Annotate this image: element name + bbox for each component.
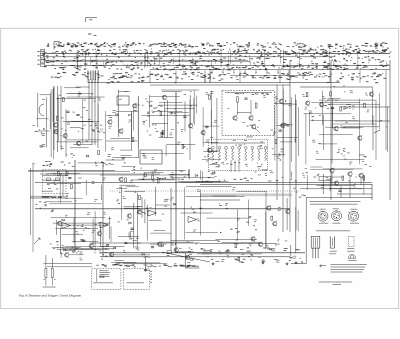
main bus 5 xyxy=(100,252,305,254)
module label mid xyxy=(228,107,230,110)
wire zb2 h1 xyxy=(69,254,84,256)
wire zbl2 v2 xyxy=(59,228,61,255)
wire zbl1 h2 xyxy=(47,183,81,185)
note arrow xyxy=(320,265,327,267)
label zbm1 t3 xyxy=(152,172,154,175)
wire zl2a h0 xyxy=(106,140,138,142)
module resistor Rb xyxy=(255,103,257,108)
wire zl2c h0 xyxy=(141,153,184,155)
wire h b7 xyxy=(200,243,277,245)
transistor zbm4 q8 xyxy=(258,242,262,247)
transistor zbm4 q6 xyxy=(267,205,271,210)
transistor zr1 q8 xyxy=(369,91,373,96)
label zbm3 t1 xyxy=(170,198,174,201)
label zbl2 t1 xyxy=(78,250,80,253)
wire zc1 h2 xyxy=(208,150,220,152)
wire zbm2 v0 xyxy=(137,193,139,247)
wire zc1 v0 xyxy=(210,91,212,126)
label zbot t9 xyxy=(293,256,297,259)
wire zl2b v4 xyxy=(193,98,195,123)
resistor zr1 r0 xyxy=(306,93,308,97)
wire zl2c h1 xyxy=(167,144,195,146)
wire zbr h2 xyxy=(331,176,343,178)
label zl2a t0 xyxy=(111,163,114,166)
transistor zl2a q7 xyxy=(119,128,123,133)
wire zbm2 h4 xyxy=(116,187,127,189)
diode zbot d4 xyxy=(142,253,144,255)
resistor zbm2 r4 xyxy=(129,233,131,237)
wire zr1 h9 xyxy=(341,127,360,129)
transistor zl2b q4 xyxy=(162,95,166,100)
connector SKT A bracket xyxy=(39,104,44,116)
capacitor zbl1 c0 xyxy=(68,178,71,179)
switch chart contact marks C xyxy=(62,65,383,71)
capacitor zc2 c3 xyxy=(279,130,282,131)
wire h row bottom comps xyxy=(90,242,200,244)
wire zl1 v3 xyxy=(49,93,51,129)
wire zbm1 h5 xyxy=(131,179,175,181)
wire zbm2 h7 xyxy=(126,186,139,188)
wire zc2 v1 xyxy=(282,89,284,157)
label zbl2 t5 xyxy=(103,224,105,227)
label zr1 t0 xyxy=(352,116,355,119)
gnd row b3 xyxy=(286,262,289,265)
wire zbot h7 xyxy=(115,262,160,264)
wire zl2b v6 xyxy=(164,102,166,138)
diode zl2a d0 xyxy=(116,113,118,115)
wire zr1 h4 xyxy=(319,133,353,135)
transistor zbm4 q7 xyxy=(251,236,255,241)
label zr1 t4 xyxy=(316,151,319,154)
grey trace highlight xyxy=(200,194,292,197)
wire left drop 1 xyxy=(53,86,55,150)
wire zbot h3 xyxy=(175,252,234,254)
label zbot t12 xyxy=(210,249,213,252)
wire zl1 v2 xyxy=(53,86,55,121)
pot arrow trig level xyxy=(34,238,40,244)
junction zbm4 j3 xyxy=(220,232,221,233)
label zbr t2 xyxy=(353,185,355,188)
bottom caption right xyxy=(319,281,352,284)
wire zc2 h4 xyxy=(275,102,292,104)
wire zbl2 h5 xyxy=(51,216,106,218)
wire zr1 v10 xyxy=(309,112,311,136)
wire h rr1 xyxy=(340,106,390,108)
main bus 1 xyxy=(35,182,372,184)
transistor zr1 q4 xyxy=(358,135,362,140)
transistor zl2b q5 xyxy=(189,123,193,128)
label zc1 t4 xyxy=(206,140,208,143)
wire zbm4 v4 xyxy=(286,198,288,230)
wire zbl2 h4 xyxy=(61,224,108,226)
labels above top rail xyxy=(107,73,387,84)
wire zbm4 h7 xyxy=(216,238,257,240)
label zr1 t2 xyxy=(312,140,316,143)
wire zbr v3 xyxy=(329,178,331,191)
label zr1 t10 xyxy=(349,104,351,107)
dashed unit box 2 xyxy=(123,269,149,290)
label zbl2 t9 xyxy=(65,215,68,218)
wire top rail xyxy=(88,82,340,84)
transistor zbl2 q3 xyxy=(89,243,93,248)
wire zbm3 v2 xyxy=(146,205,148,241)
wire drop rs4 xyxy=(340,186,342,195)
switch chart title row extra right xyxy=(203,48,392,54)
label zr1 t12 xyxy=(343,106,346,109)
label zr1 t8 xyxy=(349,162,352,165)
wire zbot h6 xyxy=(109,254,150,256)
mid bottom marks 2 xyxy=(206,256,301,263)
label zr1 t9 xyxy=(318,142,321,145)
main bus 4 xyxy=(35,208,290,210)
wire zr1 v8 xyxy=(332,98,334,128)
wire zbl2 v3 xyxy=(110,226,112,242)
capacitor zbot c9 xyxy=(151,247,154,248)
label zbm1 t5 xyxy=(269,170,273,173)
label zbm4 t3 xyxy=(197,189,200,192)
transistor zbm1 q4 xyxy=(119,177,123,182)
resistor zr1 r3 xyxy=(340,107,342,111)
label zbm2 t0 xyxy=(130,229,133,232)
wire v trig2 xyxy=(102,162,104,256)
label zl1 t4 xyxy=(88,118,91,121)
gnd row b4 xyxy=(295,261,298,264)
resistor zbm4 r5 xyxy=(271,216,273,220)
wire zbm1 h6 xyxy=(178,180,229,182)
label zl1 t3 xyxy=(78,92,81,95)
wire zr1 v2 xyxy=(323,115,325,150)
label zl1 t8 xyxy=(72,111,74,114)
wire zbot h0 xyxy=(178,251,194,253)
switch chart tick marks xyxy=(77,49,387,70)
transistor underside label xyxy=(348,259,356,262)
label zbot t17 xyxy=(227,255,230,258)
ramp output arrow xyxy=(374,130,380,133)
wire zbr h3 xyxy=(323,168,363,170)
wire zc2 h5 xyxy=(280,141,292,143)
capacitor zl1 c6 xyxy=(76,114,79,115)
label zbm4 t0 xyxy=(197,219,200,222)
op-amp U4 xyxy=(188,217,197,223)
wire zc2 v4 xyxy=(298,107,300,156)
module wire v1 xyxy=(237,102,239,115)
label zl2c t1 xyxy=(143,156,147,159)
label zr1 t7 xyxy=(309,111,313,114)
wire zc2 v2 xyxy=(274,106,276,161)
wire zbl2 h3 xyxy=(62,248,114,250)
label zbr t3 xyxy=(321,185,325,188)
label zbl2 t2 xyxy=(87,212,91,215)
wire zbm2 h3 xyxy=(124,207,138,209)
wire zl2b h8 xyxy=(141,115,189,117)
tiny label above band xyxy=(88,34,97,36)
label zbot t13 xyxy=(218,251,222,254)
label zc2 t2 xyxy=(286,124,289,127)
main bus 2 xyxy=(200,184,372,186)
label zbm4 t6 xyxy=(237,219,240,222)
transistor zr1 q9 xyxy=(306,101,310,106)
label zbm4 t5 xyxy=(293,187,296,190)
wire zbot h2 xyxy=(171,240,220,242)
transistor zr1 q2 xyxy=(319,102,323,107)
wire zl2b h6 xyxy=(162,90,181,92)
transistor zbm2 q2 xyxy=(127,213,131,218)
wire zr1 h5 xyxy=(330,103,381,105)
junction zc2 j5 xyxy=(280,159,281,160)
label near L wire xyxy=(187,261,190,264)
label zbl2 t6 xyxy=(104,212,106,215)
plug view PLC xyxy=(348,211,358,221)
switch chart corner bracket xyxy=(54,42,60,50)
junction zl2a j1 xyxy=(128,115,129,116)
wire zbm3 h2 xyxy=(154,229,166,231)
wire v r3 xyxy=(289,60,291,232)
unit1 text xyxy=(99,270,110,277)
wire zbot h8 xyxy=(111,261,136,263)
label zr1 t6 xyxy=(322,96,325,99)
wire zbl2 v5 xyxy=(73,218,75,243)
op-amp U2 comparator xyxy=(100,222,109,228)
wire zbm3 v1 xyxy=(155,187,157,216)
wire zc2 h6 xyxy=(277,124,290,126)
transistor underside view xyxy=(348,255,355,259)
module box dashed xyxy=(222,91,275,136)
wire zbm1 v1 xyxy=(187,170,189,178)
label zl2b t8 xyxy=(148,101,150,104)
wire zbm4 v6 xyxy=(199,189,201,235)
transistor zc2 q2 xyxy=(281,123,285,128)
label zl2b t10 xyxy=(161,132,164,135)
front panel pot P1 xyxy=(44,255,47,285)
wire zbm4 h5 xyxy=(185,231,217,233)
wire h trig rail xyxy=(28,170,115,172)
wire zl1 h11 xyxy=(67,139,102,141)
label zl2b t7 xyxy=(181,129,184,132)
wire zc1 h3 xyxy=(203,141,218,143)
wire zc2 v0 xyxy=(295,95,297,143)
wire zbm4 h1 xyxy=(181,212,213,214)
label zbm2 t5 xyxy=(134,191,136,194)
wire stub rs6 xyxy=(340,195,342,199)
wire zc1 v1 xyxy=(202,107,204,147)
wire zbot h1 xyxy=(114,260,124,262)
wire zr1 h6 xyxy=(311,166,323,168)
wire zl1 h7 xyxy=(76,86,90,88)
wire h pots 2 xyxy=(47,266,92,268)
wire into box2 xyxy=(144,256,150,272)
label zl2a t5 xyxy=(112,157,114,160)
label zl2b t0 xyxy=(169,133,172,136)
label zb2 t0 xyxy=(80,258,83,261)
label zl2a t6 xyxy=(109,126,112,129)
wire zl2a v4 xyxy=(131,111,133,150)
label zbot t0 xyxy=(135,247,138,250)
resistor zbot r8 xyxy=(235,244,237,248)
module below labels xyxy=(246,136,253,139)
wire zl2a h1 xyxy=(120,155,131,157)
wire zbm4 h2 xyxy=(206,217,248,219)
label zc2 t4 xyxy=(270,129,273,132)
wire zbl1 h6 xyxy=(49,203,102,205)
label zl2a t10 xyxy=(111,147,114,150)
transistor zr1 q5 xyxy=(334,126,338,131)
wire zbl1 h4 xyxy=(42,179,60,181)
trigger coupling dashed box xyxy=(43,170,67,194)
label zbm4 t1 xyxy=(187,240,189,243)
wire zl1 h3 xyxy=(56,141,97,143)
wire zbm3 h1 xyxy=(155,204,170,206)
trigger level text xyxy=(42,190,53,193)
resistor zbm1 r1 xyxy=(145,173,147,177)
wire zbr h4 xyxy=(329,188,362,190)
label zl1 t7 xyxy=(80,116,83,119)
wire zl2a h7 xyxy=(118,91,130,93)
wire zl2a h6 xyxy=(105,159,124,161)
wire zl2a v0 xyxy=(104,111,106,152)
label zl0 t1 xyxy=(42,133,45,136)
wire drop rs1 xyxy=(331,173,333,185)
plug view PLA xyxy=(318,211,328,221)
switch S1 rail 4 xyxy=(45,60,250,62)
transistor zl1 q7 xyxy=(76,141,80,146)
label zbot t16 xyxy=(273,247,275,250)
trigger level trace highlight xyxy=(30,196,68,199)
wire zbm2 h5 xyxy=(123,206,143,208)
wire zr1 h8 xyxy=(304,113,352,115)
label zc1 t1 xyxy=(210,136,213,139)
wire zl2b h10 xyxy=(159,136,174,138)
wire zbl2 v6 xyxy=(109,216,111,239)
label zbm4 t9 xyxy=(249,244,252,247)
label zc1 t5 xyxy=(210,91,214,94)
label zbl2 t4 xyxy=(99,229,101,232)
transistor zbm3 q0 xyxy=(157,242,161,247)
label zl1 t6 xyxy=(58,94,61,97)
box module small xyxy=(117,96,129,105)
wire zl0 v1 xyxy=(37,93,39,127)
label zbl2 t8 xyxy=(98,222,101,225)
dotted bus xyxy=(110,190,300,192)
transistor zc1 q3 xyxy=(201,130,205,135)
wire zbr h0 xyxy=(317,185,355,187)
label zbot t14 xyxy=(99,251,101,254)
wire zbot h5 xyxy=(161,241,193,243)
wire zbm1 h2 xyxy=(169,173,190,175)
wire v bl3 heavy xyxy=(74,160,76,252)
label zr1 t11 xyxy=(350,90,353,93)
resistor zl2b r3 xyxy=(161,133,163,137)
wire zl1 h5 xyxy=(63,120,99,122)
note text block xyxy=(330,264,367,272)
wire zbm4 v1 xyxy=(295,207,297,253)
wire v r4 xyxy=(295,100,297,230)
junction zl2a j2 xyxy=(124,162,125,163)
resistor R70 xyxy=(342,176,344,180)
cap bank contacts xyxy=(211,146,267,160)
resistor package dashed xyxy=(349,236,354,246)
resistor zbl1 r3 xyxy=(57,172,59,176)
module transistor VT9 xyxy=(249,115,253,120)
wire zl2b h9 xyxy=(159,104,198,106)
wire zr1 v7 xyxy=(386,106,388,152)
wire zl2b h4 xyxy=(155,111,182,113)
wire zbl2 v4 xyxy=(94,211,96,251)
wire zbl2 h7 xyxy=(62,234,83,236)
wire v rm1 xyxy=(371,184,373,200)
wire zl1 v1 xyxy=(82,99,84,144)
wire zc1 h1 xyxy=(202,158,220,160)
resistor zbm1 r0 xyxy=(157,179,159,183)
transistor zbm2 q3 xyxy=(137,209,141,214)
label zbot t4 xyxy=(262,260,265,263)
switch chart left legend box xyxy=(41,50,45,67)
wire zbm3 h3 xyxy=(149,219,161,221)
wire v cb4 heavy xyxy=(175,210,177,252)
wire zc2 h0 xyxy=(272,154,285,156)
label zbm4 t2 xyxy=(232,187,235,190)
op-amp U3 xyxy=(148,210,157,216)
resistor zbl1 r2 xyxy=(71,185,73,189)
wire zbm2 h6 xyxy=(125,191,145,193)
wire zbl1 h3 xyxy=(49,173,80,175)
resistor zl2c r0 xyxy=(182,144,184,148)
plug view PLB xyxy=(332,211,342,221)
label zb2 t1 xyxy=(79,252,82,255)
wire zl2a h2 xyxy=(115,157,139,159)
wire zl2b h7 xyxy=(152,122,168,124)
label zl1 t1 xyxy=(86,109,88,112)
switch S1 rail 1 xyxy=(45,52,390,54)
wire zl2b h5 xyxy=(161,89,199,91)
dashed unit box 1 xyxy=(92,269,121,290)
wire h tb1 xyxy=(28,170,130,172)
label pots xyxy=(43,286,50,289)
transistor package outline xyxy=(311,236,320,258)
resistor zc1 r1 xyxy=(209,95,211,99)
label zl2a t3 xyxy=(112,110,116,113)
wire zbm4 v7 xyxy=(236,210,238,241)
wire h tb2 xyxy=(100,174,190,176)
wire zr1 v6 xyxy=(331,108,333,164)
capacitor zl2b c2 xyxy=(183,116,186,117)
gnd row b2 xyxy=(262,261,265,264)
label zl2a t7 xyxy=(119,98,122,101)
label zbot t7 xyxy=(221,259,224,262)
module transistor VT8 xyxy=(233,115,237,120)
wire zc1 h4 xyxy=(203,151,217,153)
wire zbm2 h1 xyxy=(118,236,139,238)
notes frame line xyxy=(305,198,307,264)
wire zbl2 h2 xyxy=(53,222,111,224)
wire zl1 h0 xyxy=(70,147,89,149)
transistor zl1 q9 xyxy=(63,133,67,138)
label zbot t2 xyxy=(266,245,269,248)
transistor zl2a q4 xyxy=(133,103,137,108)
capacitor package outline xyxy=(330,236,334,248)
wire zbm4 h9 xyxy=(212,195,235,197)
label zbl2 t0 xyxy=(95,223,97,226)
label zc2 t1 xyxy=(275,97,279,100)
label zbm4 t7 xyxy=(225,203,228,206)
label zbm1 t2 xyxy=(171,172,174,175)
label zbm2 t7 xyxy=(123,250,125,253)
capacitor zbl2 c7 xyxy=(106,245,109,246)
label zbm3 t4 xyxy=(166,199,169,202)
wire zbm4 h6 xyxy=(202,253,261,255)
wire zl2a v1 xyxy=(137,97,139,158)
wire zbl2 v0 xyxy=(92,219,94,246)
wire zl2c v0 xyxy=(165,144,167,156)
